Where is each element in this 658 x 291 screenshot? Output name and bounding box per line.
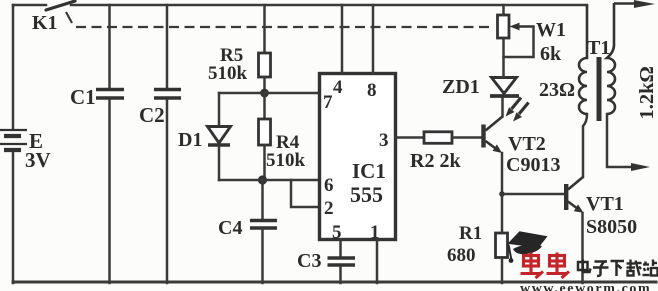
transformer T1 secondary coil xyxy=(607,3,615,114)
transistor Q2 VT2 C9013 xyxy=(481,117,502,154)
wire bottom rail xyxy=(13,281,656,284)
wire VT1 collector up xyxy=(583,114,587,177)
svg-text:1.2kΩ: 1.2kΩ xyxy=(636,66,658,119)
svg-text:23Ω: 23Ω xyxy=(539,79,575,101)
wire pin2 step xyxy=(291,180,320,207)
node C junction dot xyxy=(499,191,505,197)
wire top rail main segment xyxy=(71,4,587,7)
node A junction dot xyxy=(260,89,269,98)
pin 8 wire xyxy=(372,5,375,73)
pin 4 wire xyxy=(341,5,344,73)
svg-text:VT2: VT2 xyxy=(508,133,546,155)
logo cap crown band xyxy=(513,245,542,255)
wire VT2 emitter down xyxy=(501,153,504,194)
capacitor C1 xyxy=(96,90,124,99)
logo text chongchong glyph 1 xyxy=(521,253,544,279)
dashed gang linkage K1-W1 xyxy=(76,26,492,28)
output arrow top xyxy=(614,0,655,8)
logo text zi glyph xyxy=(593,262,609,277)
svg-text:2: 2 xyxy=(324,198,334,219)
logo cap mortarboard xyxy=(508,231,548,248)
resistor R4 xyxy=(259,119,271,145)
svg-text:555: 555 xyxy=(350,182,383,207)
svg-text:510k: 510k xyxy=(208,63,248,84)
svg-text:8: 8 xyxy=(367,80,377,101)
transformer T1 core xyxy=(597,57,602,121)
capacitor C4 xyxy=(250,221,277,229)
wire wiper loop to bottom xyxy=(504,27,534,58)
svg-text:ZD1: ZD1 xyxy=(442,76,480,98)
transistor Q1 VT1 S8050 xyxy=(564,177,584,213)
wire node C to VT1 base xyxy=(502,193,564,196)
svg-text:3V: 3V xyxy=(25,148,51,172)
wire left rail upper xyxy=(12,5,15,128)
wire D1 to lower row xyxy=(218,147,221,180)
switch K1 blade xyxy=(46,1,75,10)
svg-text:C3: C3 xyxy=(297,250,321,272)
wire R4 to lower node xyxy=(263,145,266,180)
svg-text:6k: 6k xyxy=(540,43,562,65)
wire R1 to rail xyxy=(501,258,504,284)
wire node to R4 xyxy=(263,93,266,119)
wire C4 lower xyxy=(261,230,264,283)
logo text xia glyph xyxy=(611,261,625,276)
svg-text:3: 3 xyxy=(379,130,389,151)
svg-text:680: 680 xyxy=(447,245,476,266)
wire secondary bottom xyxy=(607,114,632,167)
svg-text:R2 2k: R2 2k xyxy=(410,150,461,172)
capacitor C3 xyxy=(328,258,356,265)
wire top rail left segment xyxy=(13,4,46,7)
node B junction dot xyxy=(258,175,267,184)
svg-text:IC1: IC1 xyxy=(352,159,386,183)
wire D1 branch down xyxy=(218,93,221,126)
switch linkage diagonal dash xyxy=(66,12,72,23)
wire C1 branch lower xyxy=(108,100,111,283)
capacitor C2 xyxy=(154,90,181,99)
wire C3 lower xyxy=(339,267,342,283)
wire left rail lower xyxy=(12,152,15,283)
potentiometer W1 xyxy=(498,15,510,38)
wire C2 branch lower xyxy=(166,100,169,283)
resistor R5 xyxy=(259,53,271,77)
svg-text:4: 4 xyxy=(333,77,343,98)
svg-text:VT1: VT1 xyxy=(586,193,624,215)
svg-text:C1: C1 xyxy=(70,85,96,109)
svg-text:C2: C2 xyxy=(139,103,165,127)
logo text zhan glyph xyxy=(643,260,658,276)
wire C2 branch upper xyxy=(166,5,169,88)
wire W1 top xyxy=(502,5,505,15)
svg-text:R1: R1 xyxy=(459,223,482,244)
diode D1 xyxy=(208,127,231,146)
wire R2 to VT2 base xyxy=(452,136,482,139)
pin 3 wire to R2 xyxy=(396,136,424,139)
LED ZD1 emission arrows xyxy=(506,98,529,122)
svg-text:6: 6 xyxy=(324,175,334,196)
logo cap tassel xyxy=(509,245,512,261)
wire VT1 emitter to rail xyxy=(581,213,584,283)
battery E xyxy=(0,130,27,150)
wire node C to R1 xyxy=(501,194,504,233)
op-amp U1 IC1 555 box xyxy=(320,74,396,240)
svg-text:S8050: S8050 xyxy=(586,216,637,238)
wire VT2 collector up xyxy=(501,98,504,117)
svg-text:C9013: C9013 xyxy=(506,154,560,176)
svg-text:7: 7 xyxy=(323,92,333,113)
logo text zai glyph xyxy=(627,260,642,276)
pin 5 wire to C3 xyxy=(339,240,342,257)
pin 1 wire to rail xyxy=(376,240,379,284)
svg-text:T1: T1 xyxy=(587,37,610,59)
transformer T1 primary coil xyxy=(579,5,587,114)
wire R5 to node xyxy=(263,77,266,93)
W1 wiper arrow xyxy=(510,23,534,31)
wire lower row pin6 xyxy=(219,179,320,182)
resistor R1 xyxy=(496,233,508,258)
logo text chongchong glyph 2 xyxy=(547,253,570,279)
svg-text:510k: 510k xyxy=(266,150,306,171)
svg-text:D1: D1 xyxy=(178,129,202,151)
svg-text:www.eeworm.com: www.eeworm.com xyxy=(520,282,651,291)
wire R5 branch top xyxy=(263,5,266,53)
svg-text:C4: C4 xyxy=(218,217,242,239)
wire ZD1 up to W1 xyxy=(502,38,505,77)
resistor R2 xyxy=(424,132,452,144)
wire C1 branch upper xyxy=(108,5,111,88)
LED ZD1 xyxy=(490,78,519,97)
svg-text:W1: W1 xyxy=(536,19,566,41)
logo text dian glyph xyxy=(578,260,591,273)
output arrow bottom xyxy=(631,163,650,171)
wire node row pin7 xyxy=(219,92,320,95)
svg-text:K1: K1 xyxy=(32,12,58,34)
wire node B to C4 xyxy=(261,180,264,219)
